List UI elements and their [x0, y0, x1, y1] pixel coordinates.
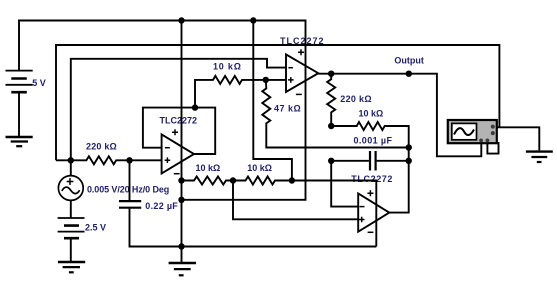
svg-text:TLC2272: TLC2272 — [351, 174, 393, 184]
svg-text:220 kΩ: 220 kΩ — [340, 94, 372, 104]
svg-text:5 V: 5 V — [32, 78, 46, 88]
svg-text:0.22 µF: 0.22 µF — [145, 201, 178, 211]
svg-text:10 kΩ: 10 kΩ — [213, 61, 242, 71]
svg-text:10 kΩ: 10 kΩ — [196, 163, 221, 173]
svg-text:0.001 µF: 0.001 µF — [354, 135, 393, 145]
svg-text:TLC2272: TLC2272 — [160, 115, 198, 125]
svg-text:220 kΩ: 220 kΩ — [86, 142, 117, 152]
svg-text:Output: Output — [394, 55, 424, 65]
svg-text:10 kΩ: 10 kΩ — [247, 163, 272, 173]
svg-text:10 kΩ: 10 kΩ — [359, 108, 384, 118]
svg-text:47 kΩ: 47 kΩ — [274, 104, 301, 114]
svg-text:0.005 V/20 Hz/0 Deg: 0.005 V/20 Hz/0 Deg — [87, 184, 169, 194]
svg-text:2.5 V: 2.5 V — [85, 223, 106, 233]
